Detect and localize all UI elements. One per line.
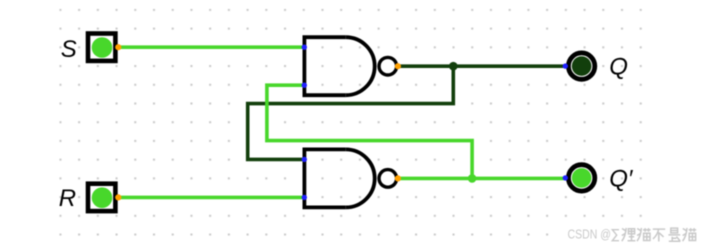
node Q input (563, 63, 568, 68)
svg-text:Q′: Q′ (609, 165, 634, 192)
watermark background halo (558, 224, 703, 244)
watermark char li (raccoon radical + li) (622, 228, 636, 241)
node Q' input (563, 175, 568, 180)
node U1 input A (302, 45, 307, 50)
watermark sigma glyph (612, 230, 619, 241)
output pin Q' (568, 165, 594, 191)
junction J2 on Q' net (468, 174, 477, 183)
input pin R (88, 184, 115, 211)
wire S to U1 input A (118, 45, 304, 49)
output pin Q (568, 53, 594, 79)
wire R to U2 input B (118, 196, 304, 200)
svg-text:Q: Q (609, 54, 628, 81)
wire U1 output to Q (398, 64, 566, 68)
junction J1 on Q net (449, 62, 458, 71)
node U2 input A (302, 157, 307, 162)
svg-text:R: R (59, 185, 76, 212)
port dot R output (115, 194, 121, 200)
port dot S output (115, 44, 121, 50)
port dot U2 output (395, 175, 401, 181)
svg-text:CSDN @: CSDN @ (568, 227, 612, 242)
node U1 input B (302, 83, 307, 88)
watermark char mao2 (raccoon radical + miao) (683, 228, 697, 241)
watermark char mao (raccoon radical + miao) (637, 228, 651, 241)
port dot U1 output (395, 63, 401, 69)
svg-text:S: S (61, 36, 77, 63)
input pin S (88, 34, 115, 61)
wire feedback U1 output to U2 input A (248, 66, 454, 159)
wire U2 output to Q' (398, 177, 566, 181)
NAND gate U1 (304, 37, 396, 95)
NAND gate U2 (304, 149, 396, 207)
watermark char shi (668, 228, 680, 241)
watermark char bu (653, 229, 665, 241)
wire feedback U2 output to U1 input B (267, 85, 472, 178)
node U2 input B (302, 195, 307, 200)
